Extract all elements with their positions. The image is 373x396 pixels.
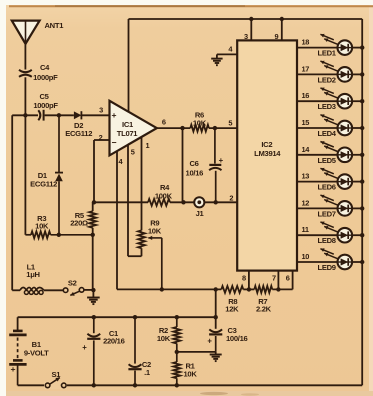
resistor R8 xyxy=(221,286,243,314)
svg-text:+: + xyxy=(207,336,212,345)
svg-text:1000pF: 1000pF xyxy=(33,101,58,110)
svg-text:IC1: IC1 xyxy=(122,120,134,129)
resistor R7 xyxy=(254,286,272,314)
capacitor C5 xyxy=(33,92,58,120)
battery B1 xyxy=(9,331,49,385)
LED LED1 xyxy=(297,34,364,58)
svg-text:ECG112: ECG112 xyxy=(65,129,92,138)
LED LED8 xyxy=(297,222,364,246)
LED LED4 xyxy=(297,114,364,138)
svg-text:10K: 10K xyxy=(157,334,171,343)
svg-text:9: 9 xyxy=(274,32,278,41)
wire V- row xyxy=(117,288,293,290)
svg-text:10K: 10K xyxy=(183,369,197,378)
svg-text:18: 18 xyxy=(302,38,310,47)
wire right LED anode rail xyxy=(361,19,363,385)
svg-text:13: 13 xyxy=(302,172,310,181)
svg-text:LED2: LED2 xyxy=(318,75,336,84)
wire antenna line down to R3 xyxy=(24,115,26,235)
svg-text:1μH: 1μH xyxy=(26,270,39,279)
node junction R3/R5 xyxy=(91,233,95,237)
svg-text:11: 11 xyxy=(302,225,309,234)
wire IC1 pin1 lead xyxy=(141,137,143,231)
capacitor C4 xyxy=(19,63,58,82)
wire input to C5 xyxy=(12,114,38,116)
pin 4 label IC1 xyxy=(118,157,123,166)
node junction pin8 xyxy=(247,287,251,291)
node junction R9 wiper xyxy=(160,287,164,291)
svg-text:1: 1 xyxy=(145,141,149,150)
capacitor C6 xyxy=(186,128,224,202)
svg-text:5: 5 xyxy=(228,119,232,128)
svg-text:LED4: LED4 xyxy=(318,129,337,138)
wire pin6 corner xyxy=(292,271,294,290)
pin 1 label IC1 xyxy=(145,141,149,150)
LED LED3 xyxy=(297,88,364,112)
svg-text:2: 2 xyxy=(99,133,103,142)
wire L1 to S2 xyxy=(44,289,63,291)
svg-text:+: + xyxy=(111,110,116,120)
svg-text:C4: C4 xyxy=(40,63,50,72)
svg-text:220/16: 220/16 xyxy=(103,337,125,346)
wire battery left lead xyxy=(17,317,19,330)
svg-text:J1: J1 xyxy=(196,209,205,218)
svg-text:12: 12 xyxy=(302,198,310,207)
wire R5 line top xyxy=(92,202,94,211)
wire IC1 pin4 lead xyxy=(116,151,118,289)
svg-text:6: 6 xyxy=(286,273,290,282)
node junction output/feedback xyxy=(180,126,184,130)
potentiometer R9 xyxy=(138,218,162,289)
pin 3 stub IC2 xyxy=(244,19,251,41)
node junction C2 bottom xyxy=(133,383,137,387)
svg-text:ECG112: ECG112 xyxy=(30,179,57,188)
node junction R1 bottom xyxy=(175,383,179,387)
svg-text:1000pF: 1000pF xyxy=(33,73,58,82)
wire IC1 pin5 lead xyxy=(127,145,129,257)
svg-text:+: + xyxy=(219,156,224,165)
op-amp IC1 xyxy=(110,101,157,156)
node junction C6 bottom xyxy=(214,200,218,204)
LED LED2 xyxy=(297,61,364,85)
wire S2 to junction xyxy=(84,289,94,291)
resistor R5 xyxy=(70,211,96,228)
switch S1 xyxy=(44,370,67,389)
svg-text:9-VOLT: 9-VOLT xyxy=(24,348,49,357)
svg-text:2: 2 xyxy=(229,194,233,203)
resistor R6 xyxy=(190,110,209,131)
node junction C3 top xyxy=(214,287,218,291)
svg-text:LED8: LED8 xyxy=(318,236,336,245)
node junction R5 top xyxy=(92,200,96,204)
svg-text:ANT1: ANT1 xyxy=(45,21,65,30)
antenna ANT1 xyxy=(12,21,64,44)
svg-text:10: 10 xyxy=(302,252,310,261)
capacitor C2 xyxy=(128,317,151,385)
node junction S2/ground/R5 xyxy=(91,288,95,292)
svg-text:220Ω: 220Ω xyxy=(70,219,88,228)
svg-text:LED5: LED5 xyxy=(318,156,337,165)
wire inverting input row xyxy=(94,201,237,203)
svg-text:LED1: LED1 xyxy=(318,49,337,58)
pin 5 label IC1 xyxy=(131,147,135,156)
node junction top rail pin3 xyxy=(249,17,253,21)
svg-text:S2: S2 xyxy=(68,278,77,287)
wire C3 branch upper xyxy=(215,289,217,328)
svg-text:LED9: LED9 xyxy=(318,263,336,272)
node junction R2/R1 xyxy=(175,350,179,354)
svg-text:100/16: 100/16 xyxy=(226,334,248,343)
ground S2 xyxy=(87,290,100,304)
LED LED6 xyxy=(297,168,364,192)
pin 8 stub IC2 xyxy=(242,271,249,290)
wire IC1 output to IC2 pin5 xyxy=(157,127,237,129)
resistor R4 xyxy=(148,183,173,206)
resistor R3 xyxy=(25,214,92,238)
wire IC1 pin7 supply from top rail xyxy=(128,19,130,112)
node junction R2 top xyxy=(175,315,179,319)
diode D2 xyxy=(65,111,92,138)
LED LED5 xyxy=(297,141,364,165)
wire offset null loop bottom xyxy=(128,248,142,256)
pin 9 stub IC2 xyxy=(274,19,281,41)
pin 4 wire IC2 xyxy=(217,45,237,55)
wire battery negative rail xyxy=(18,316,216,318)
capacitor C3 xyxy=(207,326,247,352)
wire IC1 pin2 input loop xyxy=(94,140,110,202)
node junction C1 top xyxy=(92,315,96,319)
pin 7 stub IC2 xyxy=(272,271,278,290)
svg-text:LED3: LED3 xyxy=(318,102,336,111)
wire left rail xyxy=(12,115,20,290)
svg-text:12K: 12K xyxy=(225,305,239,314)
svg-text:S1: S1 xyxy=(51,370,61,379)
svg-text:8: 8 xyxy=(242,273,246,282)
svg-text:100K: 100K xyxy=(155,192,173,201)
svg-text:10/16: 10/16 xyxy=(186,168,204,177)
LED LED9 xyxy=(297,248,364,272)
inductor L1 xyxy=(20,262,44,294)
svg-text:16: 16 xyxy=(302,91,310,100)
diode D1 xyxy=(30,115,63,235)
svg-text:+: + xyxy=(11,364,16,374)
node junction R4 right xyxy=(181,200,185,204)
pin 5 label IC2 xyxy=(228,119,232,128)
svg-text:10K: 10K xyxy=(148,226,162,235)
svg-text:3: 3 xyxy=(99,106,103,115)
svg-text:−: − xyxy=(111,138,116,148)
LED LED7 xyxy=(297,195,364,219)
svg-text:7: 7 xyxy=(272,273,276,282)
jack J1 xyxy=(194,197,204,218)
svg-text:LED6: LED6 xyxy=(318,183,336,192)
svg-text:10K: 10K xyxy=(35,221,49,230)
svg-text:C6: C6 xyxy=(189,159,198,168)
node junction output/C6 xyxy=(213,126,217,130)
node junction C1 bottom xyxy=(92,383,96,387)
node junction C2 top xyxy=(133,315,137,319)
wire V+ top rail xyxy=(129,18,363,20)
ground pin4 xyxy=(211,54,222,65)
resistor R2 xyxy=(157,317,180,352)
svg-text:14: 14 xyxy=(302,145,311,154)
svg-text:IC2: IC2 xyxy=(261,140,272,149)
svg-text:LM3914: LM3914 xyxy=(254,149,281,158)
wire C4 to input node xyxy=(24,77,26,115)
wire R1R2 junction to C3 ground xyxy=(177,351,216,353)
svg-text:+: + xyxy=(82,343,87,352)
pin 6 label IC1 xyxy=(162,117,166,126)
svg-text:5: 5 xyxy=(131,147,135,156)
ground C3 xyxy=(210,352,222,361)
wire bottom positive rail xyxy=(18,384,363,386)
svg-text:2.2K: 2.2K xyxy=(256,305,272,314)
node junction C3 / V- rail xyxy=(214,315,218,319)
wire antenna lead xyxy=(24,44,26,70)
resistor R1 xyxy=(173,352,197,385)
pin 3 label IC1 xyxy=(99,106,103,115)
node junction top rail pin9 xyxy=(280,17,284,21)
wire C5 to D2 xyxy=(45,114,74,116)
pin 2 label IC2 xyxy=(229,194,233,203)
pin 6 stub IC2 xyxy=(286,273,290,282)
pin 2 label IC1 xyxy=(99,133,103,142)
wire R5 line bottom xyxy=(92,228,94,290)
svg-text:10K: 10K xyxy=(193,118,207,127)
svg-text:6: 6 xyxy=(162,117,166,126)
svg-text:3: 3 xyxy=(244,32,248,41)
node junction pin7 xyxy=(276,287,280,291)
wire D2 to IC1 pin3 xyxy=(81,114,109,116)
node junction antenna / C5 wire xyxy=(23,113,27,117)
ic IC2 LM3914 xyxy=(237,40,297,270)
capacitor C1 xyxy=(82,317,124,385)
svg-text:17: 17 xyxy=(302,64,310,73)
svg-text:TL071: TL071 xyxy=(117,129,139,138)
switch S2 xyxy=(63,278,84,295)
svg-text:LED7: LED7 xyxy=(318,209,336,218)
svg-text:15: 15 xyxy=(302,118,310,127)
node junction D1 top xyxy=(57,113,61,117)
wire feedback vertical xyxy=(182,128,184,202)
node junction D1 bottom xyxy=(57,233,61,237)
